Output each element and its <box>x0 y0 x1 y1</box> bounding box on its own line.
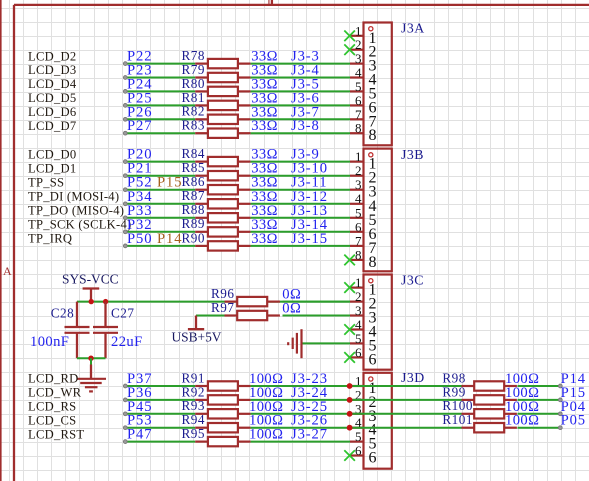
resistor R101 <box>462 423 517 432</box>
resistor R80 <box>195 87 250 96</box>
svg-text:8: 8 <box>355 247 362 262</box>
svg-text:R81: R81 <box>182 90 205 105</box>
wire end dot LCD_D2 <box>123 62 127 66</box>
svg-text:J3-15: J3-15 <box>291 231 328 247</box>
wire J3-25 segment right <box>251 413 350 415</box>
svg-text:LCD_CS: LCD_CS <box>28 413 76 427</box>
wire J3-3 segment right <box>251 63 350 65</box>
svg-text:R99: R99 <box>442 384 465 399</box>
connector J3D pin-1 marker circle <box>369 377 373 381</box>
wire J3-15 segment right <box>251 245 350 247</box>
svg-text:0Ω: 0Ω <box>282 301 301 317</box>
power symbol USB+5V <box>188 316 204 330</box>
J3B pin 7 stub <box>350 245 364 247</box>
svg-text:R90: R90 <box>182 230 205 245</box>
svg-text:P47: P47 <box>127 427 152 443</box>
resistor R87 <box>195 199 250 208</box>
J3A pin 2 stub <box>350 49 364 51</box>
resistor R86 <box>195 185 250 194</box>
svg-text:LCD_D5: LCD_D5 <box>28 91 76 105</box>
resistor R99 <box>462 395 517 404</box>
J3B pin 4 stub <box>350 203 364 205</box>
wire capacitor bottoms <box>77 357 106 359</box>
svg-text:R80: R80 <box>182 76 205 91</box>
J3B pin 8 no-connect cross <box>344 255 355 266</box>
svg-text:6: 6 <box>355 219 362 234</box>
svg-text:J3A: J3A <box>401 21 425 36</box>
svg-text:3: 3 <box>355 51 362 66</box>
J3C pin 6 no-connect cross <box>344 352 355 363</box>
svg-text:J3B: J3B <box>401 147 424 162</box>
junction dot ground stem <box>88 356 93 361</box>
svg-text:R91: R91 <box>182 370 205 385</box>
J3B pin 5 stub <box>350 217 364 219</box>
wire J3-24 segment left (net LCD_WR) <box>125 399 195 401</box>
J3A pin 7 stub <box>350 118 364 120</box>
J3C pin 4 stub <box>350 328 364 330</box>
svg-text:R88: R88 <box>182 202 205 217</box>
connector J3A box <box>364 23 392 146</box>
svg-text:1: 1 <box>355 149 362 164</box>
J3D pin 5 stub <box>350 441 364 443</box>
wire through J3D pin 2 to R99 <box>350 399 462 401</box>
wire J3-13 segment right <box>251 217 350 219</box>
resistor R92 <box>195 395 250 404</box>
svg-text:33Ω: 33Ω <box>251 231 278 247</box>
resistor R94 <box>195 423 250 432</box>
wire end dot LCD_D4 <box>123 90 127 94</box>
J3A pin 6 stub <box>350 104 364 106</box>
wire end dot TP_SCK (SCLK-4) <box>123 230 127 234</box>
wire end dot LCD_D5 <box>123 104 127 108</box>
svg-text:R97: R97 <box>211 300 234 315</box>
wire end dot LCD_D0 <box>123 160 127 164</box>
wire J3-10 segment left (net LCD_D1) <box>125 175 195 177</box>
J3A pin 2 no-connect cross <box>344 44 355 55</box>
J3A pin 8 stub <box>350 132 364 134</box>
J3D pin 4 stub <box>350 427 364 429</box>
ground symbol at J3C pin 5 (rotated) <box>288 329 301 358</box>
J3B pin 2 stub <box>350 175 364 177</box>
J3C pin 3 stub <box>350 314 364 316</box>
wire J3-27 segment left (net LCD_RST) <box>125 441 195 443</box>
wire J3-7 segment left (net LCD_D6) <box>125 118 195 120</box>
J3A pin 1 no-connect cross <box>344 31 355 42</box>
connector J3A pin-1 marker circle <box>369 27 373 31</box>
wire J3-13 segment left (net TP_DO (MISO-4)) <box>125 217 195 219</box>
svg-text:8: 8 <box>369 254 377 271</box>
svg-text:22uF: 22uF <box>111 334 143 350</box>
svg-text:2: 2 <box>355 289 362 304</box>
wire J3-26 segment left (net LCD_CS) <box>125 427 195 429</box>
junction dot SYS-VCC stem <box>89 299 94 304</box>
connector J3B pin-1 marker circle <box>369 153 373 157</box>
J3D pin 6 stub <box>350 454 364 456</box>
wire through J3D pin 4 to R101 <box>350 427 462 429</box>
resistor R83 <box>195 129 250 138</box>
J3B pin 1 stub <box>350 161 364 163</box>
wire end dot P14 <box>558 384 562 388</box>
resistor R90 <box>195 241 250 250</box>
wire end dot LCD_D3 <box>123 76 127 80</box>
resistor R100 <box>462 409 517 418</box>
wire J3-24 segment right <box>251 399 350 401</box>
wire end dot LCD_D7 <box>123 131 127 135</box>
wire end dot TP_IRQ <box>123 244 127 248</box>
svg-text:R92: R92 <box>182 384 205 399</box>
wire J3-8 segment left (net LCD_D7) <box>125 132 195 134</box>
junction dot J3D pin 1 <box>347 383 353 389</box>
wire R101 to net P05 <box>518 427 561 429</box>
wire J3-6 segment left (net LCD_D5) <box>125 104 195 106</box>
svg-text:5: 5 <box>355 79 362 94</box>
J3D pin 1 stub <box>350 385 364 387</box>
resistor R98 <box>462 381 517 390</box>
svg-text:1: 1 <box>355 275 362 290</box>
wire end dot TP_SS <box>123 188 127 192</box>
svg-text:8: 8 <box>355 121 362 136</box>
svg-text:J3D: J3D <box>401 370 425 385</box>
svg-text:P50: P50 <box>127 231 152 247</box>
svg-text:LCD_D3: LCD_D3 <box>28 63 76 77</box>
ground symbol below capacitors <box>77 365 106 392</box>
J3A pin 4 stub <box>350 76 364 78</box>
wire end dot P15 <box>558 398 562 402</box>
svg-text:6: 6 <box>355 345 362 360</box>
svg-text:1: 1 <box>355 23 362 38</box>
svg-text:R98: R98 <box>442 370 465 385</box>
svg-text:J3-27: J3-27 <box>291 427 328 443</box>
connector J3D box <box>364 373 392 469</box>
J3C pin 6 stub <box>350 356 364 358</box>
junction dot J3D pin 4 <box>347 425 353 431</box>
junction dot C27 top <box>103 299 108 304</box>
connector J3C box <box>364 275 392 370</box>
wire through J3D pin 3 to R100 <box>350 413 462 415</box>
wire J3-6 segment right <box>251 104 350 106</box>
resistor R91 <box>195 381 250 390</box>
svg-text:LCD_D7: LCD_D7 <box>28 119 76 133</box>
resistor R97 <box>225 311 280 320</box>
wire J3-26 segment right <box>251 427 350 429</box>
wire J3-9 segment left (net LCD_D0) <box>125 161 195 163</box>
J3D pin 6 no-connect cross <box>344 450 355 461</box>
svg-text:TP_SCK (SCLK-4): TP_SCK (SCLK-4) <box>28 218 131 232</box>
svg-text:P27: P27 <box>127 118 152 134</box>
svg-text:7: 7 <box>355 233 362 248</box>
svg-text:R100: R100 <box>442 398 473 413</box>
J3B pin 8 stub <box>350 259 364 261</box>
svg-text:6: 6 <box>355 93 362 108</box>
svg-text:3: 3 <box>355 177 362 192</box>
capacitor C27 <box>93 302 118 359</box>
svg-text:TP_IRQ: TP_IRQ <box>28 232 72 246</box>
svg-text:5: 5 <box>355 429 362 444</box>
resistor R96 <box>225 297 280 306</box>
resistor R81 <box>195 101 250 110</box>
J3A pin 5 stub <box>350 90 364 92</box>
svg-text:J3C: J3C <box>401 273 424 288</box>
resistor R95 <box>195 437 250 446</box>
wire end dot LCD_RS <box>123 412 127 416</box>
wire R99 to net P15 <box>518 399 561 401</box>
wire USB+5V to R97 <box>196 315 225 317</box>
svg-text:LCD_RD: LCD_RD <box>28 372 78 386</box>
resistor R84 <box>195 157 250 166</box>
svg-text:100Ω: 100Ω <box>505 413 539 429</box>
wire R96 to J3C pin 2 <box>283 301 351 303</box>
svg-text:LCD_D6: LCD_D6 <box>28 105 76 119</box>
svg-text:33Ω: 33Ω <box>251 118 278 134</box>
svg-text:5: 5 <box>355 205 362 220</box>
wire end dot P05 <box>558 426 562 430</box>
svg-text:R86: R86 <box>182 174 205 189</box>
svg-text:R82: R82 <box>182 104 205 119</box>
wire J3-7 segment right <box>251 118 350 120</box>
svg-text:4: 4 <box>355 65 362 80</box>
power symbol SYS-VCC <box>83 289 100 302</box>
svg-text:3: 3 <box>355 303 362 318</box>
J3C pin 1 stub <box>350 287 364 289</box>
svg-text:2: 2 <box>355 163 362 178</box>
svg-text:6: 6 <box>369 351 377 368</box>
wire end dot LCD_CS <box>123 426 127 430</box>
svg-text:LCD_WR: LCD_WR <box>28 386 82 400</box>
wire end dot LCD_D1 <box>123 174 127 178</box>
svg-text:A: A <box>3 264 12 278</box>
svg-text:J3-8: J3-8 <box>291 118 320 134</box>
wire J3-23 segment right <box>251 385 350 387</box>
svg-text:1: 1 <box>266 0 273 7</box>
svg-text:7: 7 <box>355 107 362 122</box>
wire J3-23 segment left (net LCD_RD) <box>125 385 195 387</box>
wire J3-10 segment right <box>251 175 350 177</box>
wire through J3D pin 1 to R98 <box>350 385 462 387</box>
svg-text:P14: P14 <box>157 231 182 247</box>
J3A pin 3 stub <box>350 62 364 64</box>
J3B pin 3 stub <box>350 189 364 191</box>
svg-text:4: 4 <box>355 191 362 206</box>
wire J3-12 segment left (net TP_DI (MOSI-4)) <box>125 203 195 205</box>
svg-text:R85: R85 <box>182 160 205 175</box>
wire J3-5 segment right <box>251 90 350 92</box>
J3A pin 1 stub <box>350 35 364 37</box>
wire end dot TP_DI (MOSI-4) <box>123 202 127 206</box>
resistor R78 <box>195 59 250 68</box>
svg-text:SYS-VCC: SYS-VCC <box>62 272 119 287</box>
svg-text:TP_SS: TP_SS <box>28 175 64 189</box>
connector J3B box <box>364 149 392 272</box>
wire J3-8 segment right <box>251 132 350 134</box>
svg-text:TP_DO (MISO-4): TP_DO (MISO-4) <box>28 204 124 218</box>
J3C pin 1 no-connect cross <box>344 282 355 293</box>
svg-text:8: 8 <box>369 127 377 144</box>
resistor R88 <box>195 213 250 222</box>
wire end dot LCD_WR <box>123 398 127 402</box>
svg-text:2: 2 <box>355 37 362 52</box>
J3C pin 5 stub <box>350 342 364 344</box>
svg-text:R78: R78 <box>182 48 205 63</box>
svg-text:6: 6 <box>369 450 377 467</box>
J3C pin 4 no-connect cross <box>344 324 355 335</box>
wire J3-4 segment left (net LCD_D3) <box>125 77 195 79</box>
wire J3-9 segment right <box>251 161 350 163</box>
wire ground to J3C pin 5 <box>302 342 351 344</box>
svg-text:R94: R94 <box>182 412 205 427</box>
wire R97 to J3C pin 3 <box>283 315 351 317</box>
wire J3-12 segment right <box>251 203 350 205</box>
resistor R82 <box>195 115 250 124</box>
wire J3-27 segment right <box>251 441 350 443</box>
wire end dot LCD_RD <box>123 384 127 388</box>
J3D pin 3 stub <box>350 413 364 415</box>
svg-text:LCD_D0: LCD_D0 <box>28 147 76 161</box>
resistor R85 <box>195 171 250 180</box>
svg-text:5: 5 <box>355 331 362 346</box>
svg-text:4: 4 <box>355 317 362 332</box>
wire end dot LCD_RST <box>123 440 127 444</box>
wire R100 to net P04 <box>518 413 561 415</box>
wire SYS-VCC horizontal <box>77 301 350 303</box>
wire J3-15 segment left (net TP_IRQ) <box>125 245 195 247</box>
svg-text:R87: R87 <box>182 188 205 203</box>
wire end dot P04 <box>558 412 562 416</box>
J3C pin 2 stub <box>350 301 364 303</box>
J3D pin 2 stub <box>350 399 364 401</box>
svg-text:LCD_RST: LCD_RST <box>28 427 84 441</box>
svg-text:6: 6 <box>355 443 362 458</box>
wire J3-14 segment right <box>251 231 350 233</box>
svg-text:R95: R95 <box>182 426 205 441</box>
junction dot J3D pin 3 <box>347 411 353 417</box>
svg-text:C27: C27 <box>111 305 134 320</box>
svg-text:R93: R93 <box>182 398 205 413</box>
resistor R93 <box>195 409 250 418</box>
connector J3C pin-1 marker circle <box>369 279 373 283</box>
wire end dot LCD_D6 <box>123 117 127 121</box>
svg-text:R96: R96 <box>211 286 234 301</box>
capacitor C28 <box>65 302 90 359</box>
svg-text:R89: R89 <box>182 216 205 231</box>
svg-text:USB+5V: USB+5V <box>172 330 222 345</box>
svg-text:LCD_D2: LCD_D2 <box>28 49 76 63</box>
junction dot J3D pin 2 <box>347 397 353 403</box>
wire J3-11 segment left (net TP_SS) <box>125 189 195 191</box>
svg-text:LCD_RS: LCD_RS <box>28 400 76 414</box>
svg-text:LCD_D1: LCD_D1 <box>28 161 76 175</box>
wire J3-5 segment left (net LCD_D4) <box>125 90 195 92</box>
svg-text:LCD_D4: LCD_D4 <box>28 77 77 91</box>
resistor R79 <box>195 73 250 82</box>
resistor R89 <box>195 227 250 236</box>
J3B pin 6 stub <box>350 231 364 233</box>
svg-text:R83: R83 <box>182 118 205 133</box>
svg-text:P15: P15 <box>157 175 182 191</box>
wire J3-4 segment right <box>251 77 350 79</box>
svg-text:C28: C28 <box>51 305 74 320</box>
wire J3-3 segment left (net LCD_D2) <box>125 63 195 65</box>
wire end dot TP_DO (MISO-4) <box>123 216 127 220</box>
svg-text:100nF: 100nF <box>30 334 69 350</box>
wire R98 to net P14 <box>518 385 561 387</box>
svg-text:P05: P05 <box>561 413 586 429</box>
wire J3-14 segment left (net TP_SCK (SCLK-4)) <box>125 231 195 233</box>
svg-text:R84: R84 <box>182 146 205 161</box>
wire J3-11 segment right <box>251 189 350 191</box>
wire J3-25 segment left (net LCD_RS) <box>125 413 195 415</box>
svg-text:R101: R101 <box>442 412 473 427</box>
svg-text:100Ω: 100Ω <box>249 427 283 443</box>
wire ground stub <box>90 358 92 364</box>
svg-text:R79: R79 <box>182 62 205 77</box>
svg-text:TP_DI (MOSI-4): TP_DI (MOSI-4) <box>28 189 119 203</box>
